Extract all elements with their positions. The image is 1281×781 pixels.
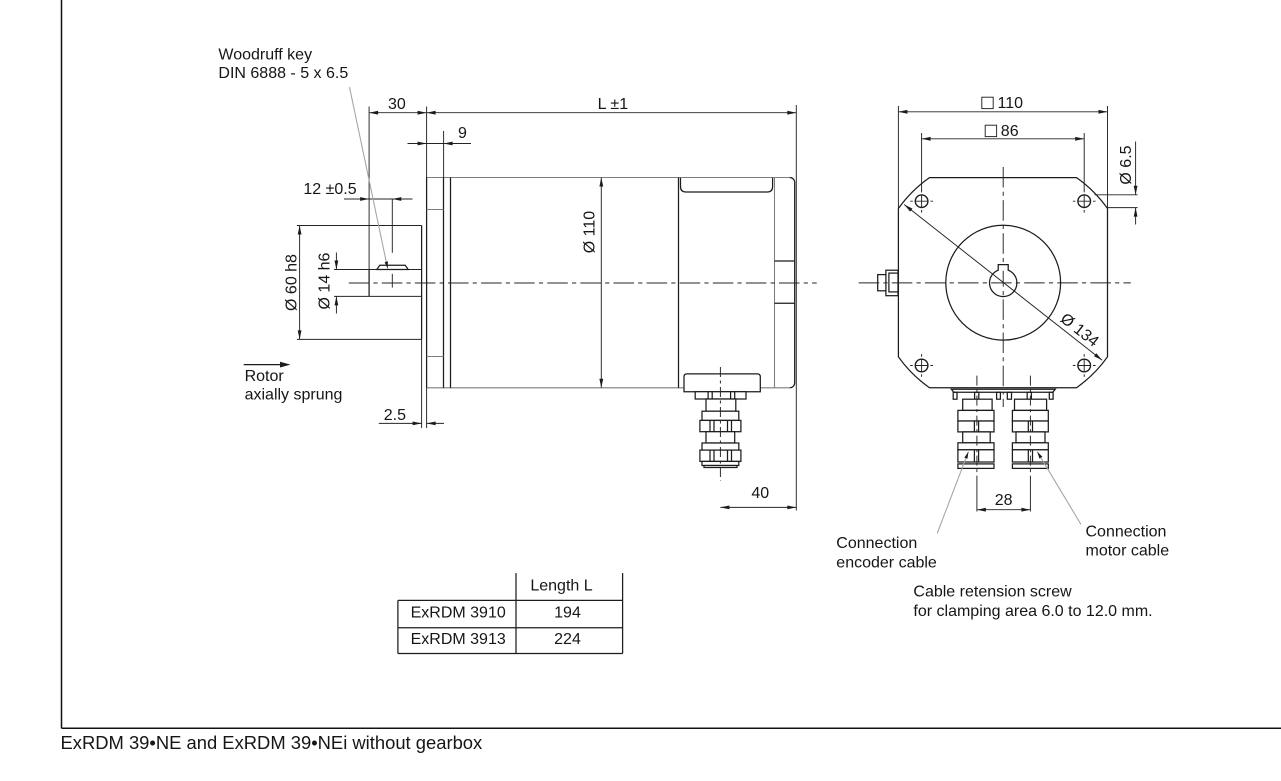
motor gland bottom ring <box>1012 464 1048 469</box>
dimension 40 <box>720 506 796 508</box>
svg-text:86: 86 <box>1001 123 1019 140</box>
extension line shaft end <box>368 107 370 270</box>
svg-text:Ø 6.5: Ø 6.5 <box>1118 145 1135 184</box>
motor gland nut 2 <box>1012 450 1048 462</box>
svg-text:40: 40 <box>751 485 769 502</box>
svg-text:Rotor: Rotor <box>245 368 285 385</box>
side view gland nut 2 <box>700 450 741 461</box>
keyway <box>998 265 1008 271</box>
gland mounting strip <box>951 389 1055 392</box>
svg-text:for clamping area 6.0 to 12.0: for clamping area 6.0 to 12.0 mm. <box>913 603 1152 620</box>
svg-text:ExRDM 39•NE and ExRDM 39•NEi w: ExRDM 39•NE and ExRDM 39•NEi without gea… <box>61 732 483 753</box>
side gland center line <box>719 367 721 481</box>
extension line body front <box>443 131 445 178</box>
flange chamfer step bottom <box>427 356 444 358</box>
dimension L +-1 <box>427 112 797 114</box>
side view gland neck <box>706 399 736 411</box>
svg-text:2.5: 2.5 <box>384 407 406 424</box>
front view horizontal center line <box>859 282 1131 284</box>
side view cable gland boss <box>684 374 760 392</box>
collar extension line top <box>297 225 422 227</box>
extension line key center <box>391 199 393 253</box>
woodruff leader line <box>350 87 388 269</box>
svg-text:Length L: Length L <box>530 578 592 595</box>
collar extension line bottom <box>297 338 422 340</box>
motor cable leader <box>1037 452 1081 525</box>
centering collar <box>421 226 423 340</box>
side view gland waist <box>706 432 735 443</box>
dimension 2.5 <box>379 422 422 424</box>
svg-text:9: 9 <box>458 125 467 142</box>
svg-text:ExRDM 3910: ExRDM 3910 <box>411 604 506 621</box>
side view gland cap <box>702 461 739 465</box>
svg-text:224: 224 <box>554 631 581 648</box>
svg-text:Woodruff key: Woodruff key <box>218 47 312 64</box>
encoder cable leader <box>937 452 968 534</box>
svg-text:ExRDM 3913: ExRDM 3913 <box>411 631 506 648</box>
side view gland flange plate <box>695 392 746 399</box>
top rounded window on rear housing <box>681 178 773 192</box>
svg-text:DIN 6888 - 5 x 6.5: DIN 6888 - 5 x 6.5 <box>218 65 348 82</box>
encoder gland waist <box>963 432 991 443</box>
motor gland waist <box>1016 432 1045 443</box>
svg-text:28: 28 <box>995 492 1013 509</box>
front plate square with corner arcs <box>898 178 1107 388</box>
svg-text:Ø 14 h6: Ø 14 h6 <box>317 252 334 309</box>
page border left vertical line <box>61 0 63 728</box>
dimension 28 <box>976 477 978 512</box>
pilot circle dia 60 <box>946 225 1061 340</box>
svg-text:194: 194 <box>554 604 581 621</box>
rotor arrow <box>244 364 282 366</box>
svg-text:Ø 60 h8: Ø 60 h8 <box>284 254 301 311</box>
flange chamfer step top <box>427 209 444 211</box>
extension line body rear / L dim <box>795 105 797 511</box>
motor gland band 1 <box>1012 410 1048 421</box>
encoder gland nut 1 <box>958 421 994 432</box>
mounting hole bottom-left <box>910 354 933 377</box>
motor gland neck <box>1015 399 1047 410</box>
shaft circle dia 14 <box>990 269 1017 296</box>
side view gland band 2 <box>702 443 739 450</box>
cable retention screw on left edge <box>886 270 898 296</box>
woodruff key <box>377 265 408 269</box>
svg-text:L ±1: L ±1 <box>598 96 629 113</box>
dimension 9 <box>408 143 472 145</box>
page border bottom horizontal line <box>62 727 1281 729</box>
svg-text:30: 30 <box>388 96 406 113</box>
encoder gland nut 2 <box>958 450 994 462</box>
dimension dia 14 h6 <box>335 253 337 270</box>
svg-text:motor cable: motor cable <box>1086 543 1170 560</box>
mounting hole bottom-right <box>1073 354 1096 377</box>
dia 134 diagonal <box>904 205 1102 361</box>
dimension dia 60 h8 <box>299 226 301 340</box>
svg-text:Ø 110: Ø 110 <box>582 211 599 254</box>
shaft <box>368 270 370 297</box>
motor gland band 2 <box>1012 443 1048 450</box>
svg-text:Cable retension screw: Cable retension screw <box>913 584 1072 601</box>
svg-text:12 ±0.5: 12 ±0.5 <box>303 181 356 198</box>
dimension 30 <box>369 112 427 114</box>
motor gland center line <box>1029 376 1031 477</box>
extension line flange face <box>426 107 428 178</box>
end cap notch lines <box>775 260 795 262</box>
mounting hole top-right <box>1073 190 1096 213</box>
encoder gland band 1 <box>958 410 994 421</box>
svg-text:axially sprung: axially sprung <box>245 387 343 404</box>
mounting hole top-left <box>910 190 933 213</box>
front view vertical center line <box>1002 167 1004 407</box>
mounting flange <box>426 178 428 388</box>
table lines <box>397 600 399 653</box>
strip tabs <box>953 392 957 399</box>
svg-text:Connection: Connection <box>836 535 917 552</box>
dimension dia 6.5 <box>1095 194 1138 196</box>
dimension square 110 <box>897 106 899 209</box>
body front inner seam <box>450 178 452 388</box>
encoder gland center line <box>976 376 978 477</box>
side view gland band 1 <box>702 411 739 420</box>
end cap seam <box>774 178 776 388</box>
motor gland nut 1 <box>1012 421 1048 432</box>
svg-text:Connection: Connection <box>1086 523 1167 540</box>
side view gland nut 1 <box>700 420 741 431</box>
encoder gland neck <box>963 399 992 410</box>
motor body outline <box>427 177 790 179</box>
side view center line <box>349 282 817 284</box>
svg-text:110: 110 <box>998 95 1024 112</box>
encoder gland band 2 <box>958 443 994 450</box>
body mid separation line <box>678 178 680 388</box>
encoder gland bottom ring <box>958 464 994 469</box>
side view gland bottom ring <box>704 466 737 468</box>
svg-text:encoder cable: encoder cable <box>836 555 937 572</box>
dimension square 86 <box>921 133 923 191</box>
dimension dia 110 <box>600 178 602 388</box>
dimension 12 +-0.5 <box>344 198 413 200</box>
